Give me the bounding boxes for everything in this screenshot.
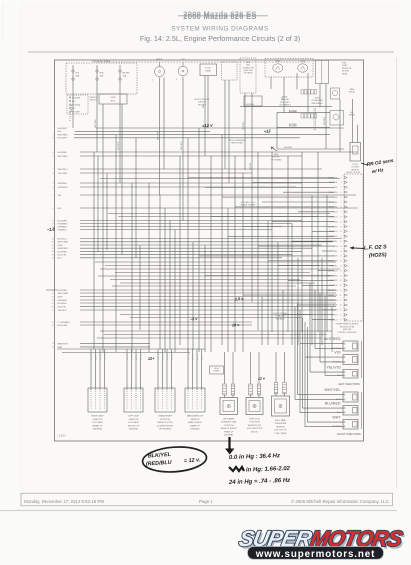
svg-text:CRANKSHAFT: CRANKSHAFT xyxy=(158,415,173,418)
svg-text:WHT/YEL: WHT/YEL xyxy=(325,388,341,392)
svg-text:31: 31 xyxy=(340,319,342,321)
svg-text:71: 71 xyxy=(52,343,54,345)
svg-text:LT GRN/BLK: LT GRN/BLK xyxy=(58,322,71,324)
svg-text:15: 15 xyxy=(340,241,342,243)
svg-text:www.supermotors.net: www.supermotors.net xyxy=(255,549,376,560)
svg-text:PRESS: PRESS xyxy=(214,371,221,373)
svg-text:BLU/RED: BLU/RED xyxy=(58,251,68,253)
svg-text:31: 31 xyxy=(52,238,54,240)
svg-text:8: 8 xyxy=(53,173,54,175)
svg-text:WHT: WHT xyxy=(332,416,341,420)
svg-text:57: 57 xyxy=(52,310,54,312)
svg-text:28: 28 xyxy=(340,305,342,307)
svg-text:BOX, LEFT: BOX, LEFT xyxy=(280,102,290,104)
svg-text:BLK/RED: BLK/RED xyxy=(289,111,298,113)
svg-text:SPARK: SPARK xyxy=(156,58,163,61)
svg-text:BLK/RED: BLK/RED xyxy=(58,290,68,292)
svg-text:35: 35 xyxy=(52,251,54,253)
svg-text:37: 37 xyxy=(52,258,54,260)
svg-text:YEL/GRN: YEL/GRN xyxy=(58,173,68,175)
svg-text:62: 62 xyxy=(52,325,54,327)
svg-text:JOINT: JOINT xyxy=(110,97,116,99)
svg-text:BLKYEL: BLKYEL xyxy=(136,354,138,360)
svg-text:2: 2 xyxy=(152,80,153,82)
svg-text:ENGINE): ENGINE) xyxy=(191,429,200,431)
svg-text:OF DASH): OF DASH) xyxy=(244,72,253,75)
svg-text:WHT/GRN: WHT/GRN xyxy=(58,242,69,244)
svg-text:19: 19 xyxy=(340,261,342,263)
svg-text:54: 54 xyxy=(52,300,54,302)
svg-text:11: 11 xyxy=(340,221,342,223)
svg-text:+12 v: +12 v xyxy=(202,123,214,129)
svg-text:BLK: BLK xyxy=(58,208,63,210)
svg-text:EXHAUST CAM: EXHAUST CAM xyxy=(221,421,236,424)
svg-text:BLK/YEL: BLK/YEL xyxy=(58,307,68,309)
svg-text:(FRONT OF: (FRONT OF xyxy=(128,425,140,427)
svg-text:+12: +12 xyxy=(264,128,272,134)
svg-text:WITH: WITH xyxy=(315,98,320,100)
svg-text:WITH CONDENSER: WITH CONDENSER xyxy=(229,140,246,142)
svg-text:(ON TOP OF: (ON TOP OF xyxy=(274,430,287,432)
svg-text:WHT/RED: WHT/RED xyxy=(324,337,341,341)
svg-text:34: 34 xyxy=(52,248,54,250)
svg-text:4: 4 xyxy=(53,152,54,154)
svg-text:36: 36 xyxy=(52,254,54,256)
svg-text:BLK/RED: BLK/RED xyxy=(284,147,293,149)
svg-text:BLKYEL: BLKYEL xyxy=(162,354,164,360)
svg-text:RIGHT SIDE: RIGHT SIDE xyxy=(91,416,104,418)
svg-text:GRN: GRN xyxy=(58,245,63,247)
svg-text:(HO2S): (HO2S) xyxy=(369,252,387,259)
svg-text:OF ENGINE): OF ENGINE) xyxy=(159,429,172,431)
svg-text:SENSOR (TP): SENSOR (TP) xyxy=(248,425,262,427)
svg-text:BRN: BRN xyxy=(58,347,63,349)
svg-text:POSITION: POSITION xyxy=(160,419,171,421)
svg-text:18: 18 xyxy=(340,256,342,258)
svg-text:PUMP: PUMP xyxy=(342,65,348,67)
svg-text:52: 52 xyxy=(52,293,54,295)
svg-text:(MAF) (RIGHT: (MAF) (RIGHT xyxy=(188,421,203,424)
svg-text:MASS AIRFLOW: MASS AIRFLOW xyxy=(187,415,204,418)
svg-text:(IN DASH): (IN DASH) xyxy=(276,317,285,320)
svg-text:16: 16 xyxy=(340,246,342,248)
svg-text:BLU/WHT: BLU/WHT xyxy=(58,220,69,222)
svg-text:SENSOR: SENSOR xyxy=(190,419,199,421)
svg-text:IGNITION: IGNITION xyxy=(198,102,207,104)
svg-text:25: 25 xyxy=(340,290,342,292)
svg-text:BLK/WHT: BLK/WHT xyxy=(58,128,68,130)
svg-text:(ON THROTTLE: (ON THROTTLE xyxy=(247,428,263,430)
svg-text:29: 29 xyxy=(340,310,342,312)
svg-text:BLU: BLU xyxy=(58,258,63,260)
svg-text:BLKYEL: BLKYEL xyxy=(95,354,97,360)
svg-text:COIL PACK: COIL PACK xyxy=(92,421,104,424)
svg-text:REAR OF: REAR OF xyxy=(190,424,200,427)
svg-text:53: 53 xyxy=(52,296,54,298)
svg-text:7: 7 xyxy=(341,202,342,204)
svg-text:22: 22 xyxy=(340,275,342,277)
svg-text:RELAY: RELAY xyxy=(349,91,356,94)
svg-text:13: 13 xyxy=(340,231,342,233)
svg-text:ENGINE): ENGINE) xyxy=(93,429,102,431)
svg-text:METER: METER xyxy=(123,73,131,75)
svg-text:BLKYEL: BLKYEL xyxy=(91,354,93,360)
svg-text:BLK/RED: BLK/RED xyxy=(324,116,326,125)
svg-text:WHT/RED: WHT/RED xyxy=(58,135,69,137)
svg-text:SENSOR: SENSOR xyxy=(276,426,285,428)
svg-text:(FRONT: (FRONT xyxy=(273,157,281,159)
svg-text:BODY): BODY) xyxy=(251,431,258,433)
svg-text:2: 2 xyxy=(53,183,54,185)
svg-text:~1.8: ~1.8 xyxy=(47,226,56,232)
svg-text:LEFT INJECTORS: LEFT INJECTORS xyxy=(338,382,360,386)
svg-text:9: 9 xyxy=(341,212,342,214)
svg-text:TANK): TANK) xyxy=(342,72,348,75)
svg-text:BLKYEL: BLKYEL xyxy=(171,354,173,360)
svg-text:MAIN: MAIN xyxy=(350,88,355,91)
svg-text:BLK/BLU: BLK/BLU xyxy=(58,238,67,240)
svg-text:27: 27 xyxy=(340,300,342,302)
svg-text:STATE: STATE xyxy=(205,70,212,73)
svg-text:SYSTEM WIRING DIAGRAMS: SYSTEM WIRING DIAGRAMS xyxy=(171,26,268,33)
svg-text:BLK/WHT: BLK/WHT xyxy=(71,103,73,112)
svg-text:BLKYEL: BLKYEL xyxy=(158,354,160,360)
svg-text:IGNITION: IGNITION xyxy=(129,419,139,421)
svg-text:BLU/RED: BLU/RED xyxy=(325,402,341,406)
svg-text:1: 1 xyxy=(53,195,54,197)
svg-text:PNK: PNK xyxy=(333,197,338,199)
svg-text:BLKYEL: BLKYEL xyxy=(127,354,129,360)
svg-text:30: 30 xyxy=(340,315,342,317)
svg-text:GRN/YEL: GRN/YEL xyxy=(246,104,254,106)
svg-text:Monday, December 17, 2012 9:52: Monday, December 17, 2012 9:52:18 PM xyxy=(24,499,104,504)
svg-text:1: 1 xyxy=(53,134,54,136)
svg-text:LEFT BANK: LEFT BANK xyxy=(223,418,235,421)
svg-text:BLKYEL: BLKYEL xyxy=(104,354,106,360)
svg-text:YEL/VIO: YEL/VIO xyxy=(327,366,341,370)
svg-text:BLK/RED: BLK/RED xyxy=(289,125,298,127)
svg-text:Fig. 14: 2.5L, Engine Performa: Fig. 14: 2.5L, Engine Performance Circui… xyxy=(140,34,300,43)
svg-text:2: 2 xyxy=(53,138,54,140)
svg-text:GRN/BLK: GRN/BLK xyxy=(58,183,68,185)
svg-text:12 v: 12 v xyxy=(258,376,266,381)
svg-text:Page 1: Page 1 xyxy=(199,499,213,504)
svg-text:L.F. O2 S: L.F. O2 S xyxy=(364,244,387,251)
svg-text:= 12 v.: = 12 v. xyxy=(184,457,201,464)
svg-text:BLU: BLU xyxy=(334,212,338,214)
svg-text:BLK: BLK xyxy=(334,187,338,189)
svg-text:22: 22 xyxy=(52,223,54,225)
svg-text:RESISTOR: RESISTOR xyxy=(342,68,352,70)
svg-text:GRN/RED: GRN/RED xyxy=(58,223,69,225)
svg-text:WHT/BLU: WHT/BLU xyxy=(58,169,68,171)
svg-text:VIO: VIO xyxy=(334,351,340,355)
svg-text:1.5 v: 1.5 v xyxy=(235,297,245,302)
svg-text:3: 3 xyxy=(341,182,342,184)
svg-text:(IN FUEL: (IN FUEL xyxy=(342,71,350,73)
svg-text:4: 4 xyxy=(53,187,54,189)
svg-text:2: 2 xyxy=(341,177,342,179)
svg-text:ENGINE): ENGINE) xyxy=(129,429,138,431)
svg-text:SWITCH: SWITCH xyxy=(90,100,98,102)
svg-text:POSITION: POSITION xyxy=(224,425,234,427)
svg-text:SENSOR (CKP): SENSOR (CKP) xyxy=(157,422,173,424)
svg-text:OF ENGINE): OF ENGINE) xyxy=(271,159,282,161)
svg-text:17: 17 xyxy=(340,251,342,253)
svg-text:BLU/YEL: BLU/YEL xyxy=(58,255,68,257)
svg-text:MODULE (PCM): MODULE (PCM) xyxy=(340,326,354,328)
svg-text:RELAY: RELAY xyxy=(349,114,356,117)
svg-text:BLU/RED: BLU/RED xyxy=(118,141,120,150)
svg-text:FUEL TANK): FUEL TANK) xyxy=(275,432,287,435)
svg-text:CONTROL MODULES: CONTROL MODULES xyxy=(337,332,357,334)
svg-text:GRN/YEL: GRN/YEL xyxy=(243,122,245,130)
svg-text:BLU/BLK: BLU/BLK xyxy=(58,303,68,305)
svg-text:BLU/RED: BLU/RED xyxy=(58,152,68,154)
svg-text:BLKYEL: BLKYEL xyxy=(131,354,133,360)
svg-text:7: 7 xyxy=(53,169,54,171)
svg-text:55: 55 xyxy=(52,303,54,305)
svg-text:BLKYEL: BLKYEL xyxy=(167,354,169,360)
svg-text:LEFT SIDE: LEFT SIDE xyxy=(128,416,139,418)
svg-text:FAN WIRING: FAN WIRING xyxy=(312,102,323,105)
svg-text:12+: 12+ xyxy=(148,356,156,361)
svg-text:COIL: COIL xyxy=(181,59,185,61)
svg-text:10: 10 xyxy=(340,217,342,219)
svg-text:VIO/WHT: VIO/WHT xyxy=(332,362,341,364)
svg-text:BLK: BLK xyxy=(334,256,338,258)
svg-text:3: 3 xyxy=(53,156,54,158)
svg-text:8: 8 xyxy=(341,207,342,209)
svg-text:20: 20 xyxy=(340,266,342,268)
svg-text:72: 72 xyxy=(52,347,54,349)
svg-text:POWERTRAIN CONTROL: POWERTRAIN CONTROL xyxy=(336,323,359,326)
svg-text:WHT/BLU: WHT/BLU xyxy=(181,141,183,150)
svg-text:BLKYEL: BLKYEL xyxy=(192,354,194,360)
svg-text:26: 26 xyxy=(340,295,342,297)
svg-text:33: 33 xyxy=(52,245,54,247)
svg-text:32: 32 xyxy=(52,242,54,244)
svg-text:BLKYEL: BLKYEL xyxy=(100,354,102,360)
svg-text:6: 6 xyxy=(53,208,54,210)
svg-text:(LOWER FRONT: (LOWER FRONT xyxy=(157,425,174,427)
svg-text:BLK/WHT: BLK/WHT xyxy=(58,138,68,140)
svg-text:FAN SYSTEM: FAN SYSTEM xyxy=(231,142,243,145)
svg-text:~5 v: ~5 v xyxy=(190,317,199,322)
svg-text:PRESSURE: PRESSURE xyxy=(275,423,287,425)
svg-text:RIGHT INJECTORS: RIGHT INJECTORS xyxy=(337,432,361,436)
svg-text:BLU/ORN: BLU/ORN xyxy=(58,325,68,327)
svg-text:ENGINE): ENGINE) xyxy=(224,435,233,437)
svg-text:EGI: EGI xyxy=(76,73,80,75)
svg-text:12: 12 xyxy=(340,226,342,228)
svg-text:CONDENSER: CONDENSER xyxy=(311,100,323,102)
svg-text:5: 5 xyxy=(341,192,342,194)
svg-text:61: 61 xyxy=(52,322,54,324)
svg-text:HOT AT ALL TIMES: HOT AT ALL TIMES xyxy=(92,60,111,63)
svg-text:(W/ ECM): (W/ ECM) xyxy=(343,329,352,331)
svg-text:2000 Mazda 626 ES: 2000 Mazda 626 ES xyxy=(183,12,256,21)
svg-text:SOLID: SOLID xyxy=(205,67,211,69)
svg-text:24: 24 xyxy=(340,285,342,287)
svg-text:YEL/BLU: YEL/BLU xyxy=(58,310,67,312)
svg-text:BRN/WHT: BRN/WHT xyxy=(58,343,69,345)
svg-text:4: 4 xyxy=(341,187,342,189)
svg-text:POSITION: POSITION xyxy=(250,422,260,424)
svg-text:BLK: BLK xyxy=(58,131,63,133)
svg-text:FUEL: FUEL xyxy=(342,63,347,65)
svg-text:10 v: 10 v xyxy=(232,323,241,328)
svg-text:21: 21 xyxy=(52,220,54,222)
svg-text:YEL/GRN: YEL/GRN xyxy=(158,131,160,140)
svg-text:ORN/BLU: ORN/BLU xyxy=(58,226,68,228)
svg-text:BLU: BLU xyxy=(337,412,341,414)
svg-text:56: 56 xyxy=(52,307,54,309)
svg-text:WHT/GRN: WHT/GRN xyxy=(58,293,69,295)
svg-text:SENSOR (RIGHT: SENSOR (RIGHT xyxy=(220,428,237,430)
svg-text:B ENGINE: B ENGINE xyxy=(72,97,81,99)
svg-text:FUEL TANK: FUEL TANK xyxy=(275,419,287,422)
svg-text:(REAR OF: (REAR OF xyxy=(92,424,103,427)
svg-text:BTN: BTN xyxy=(100,73,105,75)
svg-text:BLKYEL: BLKYEL xyxy=(188,354,190,360)
svg-text:PNK/BLU: PNK/BLU xyxy=(58,229,68,231)
svg-text:IGNITION: IGNITION xyxy=(93,419,103,421)
svg-text:23: 23 xyxy=(340,280,342,282)
svg-text:BLKYEL: BLKYEL xyxy=(197,354,199,360)
svg-text:14: 14 xyxy=(340,236,342,238)
svg-text:BLKYEL: BLKYEL xyxy=(201,354,203,360)
svg-text:21: 21 xyxy=(340,270,342,272)
svg-text:COIL PACK: COIL PACK xyxy=(128,421,140,424)
svg-text:REAR OF: REAR OF xyxy=(224,430,234,433)
svg-text:VIO: VIO xyxy=(334,315,338,317)
svg-text:6: 6 xyxy=(341,197,342,199)
svg-text:BLKYEL: BLKYEL xyxy=(140,354,142,360)
svg-text:3: 3 xyxy=(176,79,177,81)
svg-text:KICK PANEL): KICK PANEL) xyxy=(279,104,290,107)
svg-text:GRN/ORN: GRN/ORN xyxy=(58,248,69,250)
svg-text:FRONT OF PCM: FRONT OF PCM xyxy=(346,172,360,174)
svg-text:© 2005 Mitchell Repair Informa: © 2005 Mitchell Repair Information Compa… xyxy=(291,499,390,504)
svg-text:WHT/RED: WHT/RED xyxy=(95,119,97,128)
svg-text:GRN: GRN xyxy=(58,296,63,298)
svg-text:THROTTLE: THROTTLE xyxy=(249,419,261,421)
svg-text:WHT/RED: WHT/RED xyxy=(58,156,69,158)
svg-text:L 33610: L 33610 xyxy=(57,435,66,438)
svg-text:WHT/BLK: WHT/BLK xyxy=(332,426,342,428)
svg-text:GRN/BLK: GRN/BLK xyxy=(58,300,68,302)
svg-text:GRN/WHT: GRN/WHT xyxy=(58,187,69,189)
